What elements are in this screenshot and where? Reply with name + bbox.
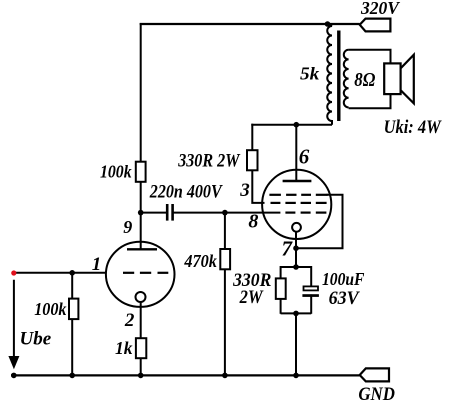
capacitor C2 100uF 63V electrolytic plates — [302, 286, 319, 297]
svg-text:320V: 320V — [360, 0, 400, 18]
pentode V2 anode plate pin 6 — [283, 180, 312, 182]
pentode V2 screen grid dashes pin 3 — [271, 202, 327, 204]
svg-text:330R 2W: 330R 2W — [177, 150, 240, 171]
svg-text:220n 400V: 220n 400V — [149, 182, 223, 203]
speaker LS1 horn — [401, 55, 414, 104]
svg-text:100uF: 100uF — [322, 269, 365, 289]
node ground rail 470k — [222, 373, 228, 379]
wire left column vertical (top rail to 100k) — [140, 23, 142, 162]
wire coupling cap left — [141, 212, 167, 214]
svg-text:100k: 100k — [34, 299, 67, 319]
triode V1 cathode circle pin 2 — [136, 292, 146, 302]
svg-text:7: 7 — [282, 237, 294, 261]
node junction RC top — [293, 264, 299, 270]
svg-text:8Ω: 8Ω — [354, 69, 375, 91]
terminal GND flag — [360, 368, 389, 381]
wire top rail from left column to 320V terminal — [140, 23, 360, 25]
wire anode rail 330R to transformer primary — [251, 124, 332, 126]
wire pentode cathode pin 7 down to RC — [295, 232, 297, 268]
resistor R1 100k (top) — [136, 162, 146, 182]
svg-text:Uki: 4W: Uki: 4W — [384, 117, 442, 138]
pentode V2 cathode circle pin 7 — [292, 223, 301, 232]
wire 100k bottom to triode anode — [140, 182, 142, 250]
resistor R4 100k (input) — [69, 299, 78, 320]
svg-text:9: 9 — [123, 217, 132, 237]
wire secondary loop to speaker — [349, 50, 391, 108]
node junction cap/470k — [222, 210, 228, 216]
wire suppressor grid to cathode loop — [296, 195, 343, 248]
wire input node to triode grid pin 1 — [14, 272, 106, 274]
terminal 320V flag — [360, 19, 391, 32]
wire 470k branch vertical top — [224, 213, 226, 249]
svg-text:6: 6 — [299, 145, 310, 169]
node junction RC bottom — [293, 311, 299, 317]
wire input 100k branch vertical — [71, 273, 73, 299]
node ground rail RC — [293, 373, 299, 379]
node junction grid/100k — [69, 270, 75, 276]
node junction cathode/suppressor — [293, 245, 299, 251]
wire ground rail — [11, 374, 360, 376]
node input (red) — [11, 270, 16, 275]
svg-text:GND: GND — [358, 384, 395, 405]
node junction cap/anode — [138, 210, 144, 216]
wire RC left branch to 330R — [280, 266, 282, 278]
svg-text:Ube: Ube — [20, 329, 52, 350]
transformer T1 core — [337, 31, 340, 122]
svg-text:3: 3 — [239, 180, 250, 201]
pentode V2 envelope — [262, 170, 331, 239]
resistor R3 470k — [220, 249, 230, 269]
pentode V2 control grid dashes pin 8 — [285, 212, 326, 214]
transformer T1 primary coil 5k — [327, 24, 332, 125]
wire RC top bar — [281, 266, 312, 268]
wire RC node down to ground rail — [295, 313, 297, 375]
Ube arrow — [13, 280, 15, 357]
svg-text:5k: 5k — [300, 64, 320, 84]
svg-text:8: 8 — [248, 210, 258, 232]
wire triode cathode to 1k — [140, 302, 142, 338]
node ground rail left — [11, 373, 17, 379]
wire pentode anode pin 6 — [295, 125, 297, 181]
resistor R2 330R 2W (anode) — [247, 150, 258, 170]
wire input 100k bottom to ground rail — [71, 319, 73, 375]
node ground rail 100k — [69, 373, 75, 379]
svg-text:2: 2 — [124, 310, 135, 331]
svg-text:100k: 100k — [100, 162, 132, 182]
pentode V2 suppressor grid dashes — [269, 194, 327, 196]
resistor R5 1k (cathode) — [136, 338, 146, 358]
svg-text:63V: 63V — [329, 289, 361, 309]
wire RC 100uF bottom — [310, 294, 312, 313]
transformer T1 secondary coil 8 ohm — [344, 50, 349, 108]
capacitor C1 220n 400V plates — [167, 204, 172, 221]
svg-text:2W: 2W — [239, 288, 264, 308]
node junction anode rail / pin6 — [294, 122, 300, 128]
svg-text:1k: 1k — [115, 338, 133, 358]
resistor R6 330R 2W (pentode cathode) — [276, 278, 286, 299]
wire 470k bottom to ground rail — [224, 269, 226, 375]
wire 330R 2W top vertical — [251, 124, 253, 151]
node ground rail 1k — [138, 373, 144, 379]
wire RC bottom bar — [281, 312, 312, 314]
wire RC 330R bottom — [280, 299, 282, 314]
wire 1k bottom to ground rail — [140, 358, 142, 375]
wire coupling cap right to pentode grid pin 8 — [173, 212, 280, 214]
speaker LS1 driver — [384, 63, 400, 94]
triode V1 anode plate pin 9 — [127, 248, 157, 250]
svg-text:1: 1 — [92, 254, 102, 275]
triode V1 grid dashes pin 1 — [123, 272, 168, 274]
wire RC right branch to 100uF — [310, 266, 312, 287]
triode V1 envelope — [106, 242, 175, 307]
node junction 320V / primary — [325, 21, 331, 27]
wire 330R 2W bottom to pin 3 elbow — [252, 170, 264, 203]
svg-text:470k: 470k — [183, 251, 217, 271]
